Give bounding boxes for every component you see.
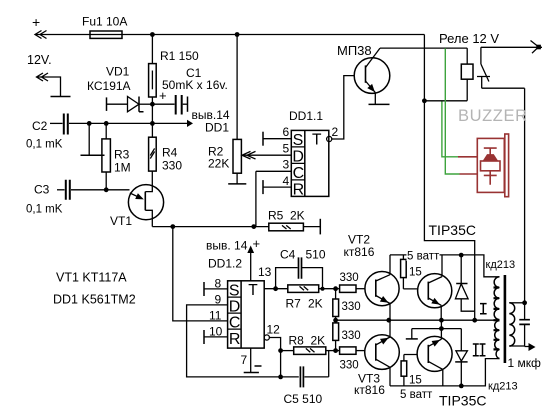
svg-text:S: S xyxy=(229,282,240,299)
svg-text:DD1: DD1 xyxy=(205,121,229,135)
svg-text:МП38: МП38 xyxy=(337,43,372,58)
pin 10 stub xyxy=(203,330,205,344)
svg-text:КС191А: КС191А xyxy=(87,79,131,93)
capacitor C3 xyxy=(57,189,65,191)
svg-text:VT1: VT1 xyxy=(110,214,132,228)
pin 3 wire (clock from VT1) xyxy=(256,171,291,226)
resistor 15 bottom (5 watt) xyxy=(404,355,418,361)
transformer core xyxy=(504,275,507,363)
resistor R5 2K xyxy=(269,223,304,231)
svg-text:10: 10 xyxy=(209,325,223,339)
resistor R3 1M xyxy=(105,123,107,189)
svg-text:DD1 K561TM2: DD1 K561TM2 xyxy=(53,293,136,307)
junction relay coil bottom xyxy=(422,98,427,103)
node B center xyxy=(333,318,338,323)
svg-text:C5 510: C5 510 xyxy=(284,392,323,406)
resistor chain node A xyxy=(333,286,338,291)
svg-text:22K: 22K xyxy=(208,157,229,171)
svg-text:1 мкф: 1 мкф xyxy=(508,356,542,370)
svg-text:C4: C4 xyxy=(280,248,296,262)
svg-text:TIP35C: TIP35C xyxy=(429,222,476,238)
transformer primary II winding xyxy=(495,321,500,359)
svg-text:C: C xyxy=(293,165,305,182)
svg-text:2: 2 xyxy=(332,125,339,139)
junction R2 top xyxy=(235,32,240,37)
wire bottom rail xyxy=(390,359,500,386)
svg-text:15: 15 xyxy=(409,267,422,279)
svg-text:+: + xyxy=(253,236,261,251)
svg-text:2K: 2K xyxy=(290,209,305,223)
svg-text:T: T xyxy=(248,282,258,299)
svg-text:R5: R5 xyxy=(268,209,284,223)
wire DD1.2 pin14 supply arrow xyxy=(250,250,252,281)
svg-text:выв. 14: выв. 14 xyxy=(206,239,248,253)
wire MP38 collector to relay coil xyxy=(380,47,467,49)
resistor R7 2K xyxy=(288,285,319,293)
wire 12V to ground xyxy=(46,77,61,97)
wire pin2 to MP38 base xyxy=(332,76,355,139)
svg-text:TIP35C: TIP35C xyxy=(439,393,486,409)
ground (12V return T-bar) xyxy=(51,96,71,98)
relay coil (Rele 12V) xyxy=(461,64,473,79)
junction R3/C3/VT1 xyxy=(104,187,109,192)
resistor R8 2K xyxy=(281,350,294,352)
svg-text:5: 5 xyxy=(283,142,290,156)
wire vyv14 arrow (to DD1 pin14) xyxy=(152,122,187,124)
junction rail to DD1.1 pin3 xyxy=(251,224,256,229)
svg-text:R8: R8 xyxy=(289,334,305,348)
resistor R1 xyxy=(151,35,153,105)
svg-text:C2: C2 xyxy=(32,119,48,133)
svg-text:D: D xyxy=(292,149,304,166)
wire green 1 (coil top to buzzer lower terminal) xyxy=(445,48,459,174)
pin 4 stub xyxy=(262,180,264,194)
resistor 330 vertical 2 xyxy=(335,320,337,323)
svg-text:R4: R4 xyxy=(162,146,178,160)
pin 9 wire (D loop) xyxy=(187,305,281,377)
resistor 330 vertical 1 xyxy=(335,289,337,299)
svg-text:Fu1 10A: Fu1 10A xyxy=(82,15,127,29)
svg-text:VD1: VD1 xyxy=(106,65,130,79)
node C xyxy=(333,348,338,353)
svg-text:50mK x 16v.: 50mK x 16v. xyxy=(162,78,228,92)
resistor 330 horizontal top (VT2 base) xyxy=(336,288,340,290)
pin 5 wire (from R2 wiper) xyxy=(243,154,291,156)
svg-text:+: + xyxy=(32,14,40,30)
transformer primary I winding xyxy=(494,277,499,320)
svg-text:кд213: кд213 xyxy=(488,381,518,393)
svg-text:Реле 12 V: Реле 12 V xyxy=(439,31,499,46)
svg-text:13: 13 xyxy=(258,265,272,279)
diode kd213 bottom xyxy=(460,329,462,351)
resistor 330 horizontal bottom (VT3 base) xyxy=(336,350,340,352)
svg-text:2K: 2K xyxy=(308,297,323,311)
wire secondary bottom output arrow xyxy=(509,345,530,348)
transistor MP38 xyxy=(354,58,390,94)
wire top rail (collectors) xyxy=(390,255,500,277)
svg-text:12: 12 xyxy=(267,323,281,337)
wire center rail xyxy=(336,319,495,321)
wire secondary top xyxy=(509,302,524,304)
wire green 2 (+12V node to buzzer upper terminal) xyxy=(442,102,458,157)
svg-text:VT1 KT117A: VT1 KT117A xyxy=(56,271,127,285)
connector arrow input + xyxy=(35,31,47,39)
terminal stub mid (T-bar at TIP bottom emitter) xyxy=(412,329,462,339)
svg-text:5 ватт: 5 ватт xyxy=(400,389,433,401)
ground under C2 xyxy=(88,123,90,155)
svg-text:5 ватт: 5 ватт xyxy=(407,251,440,263)
svg-text:0,1 mK: 0,1 mK xyxy=(26,139,63,151)
svg-text:BUZZER: BUZZER xyxy=(458,107,528,125)
svg-text:11: 11 xyxy=(209,309,222,323)
IC DD1.1 (K561TM2 flip-flop) xyxy=(291,130,329,196)
svg-text:330: 330 xyxy=(342,301,361,313)
svg-text:2K: 2K xyxy=(311,334,326,348)
pin 2 output bubble xyxy=(327,136,332,141)
wire pin12 down xyxy=(269,338,280,377)
wire VT1 b1 rail xyxy=(152,226,268,228)
svg-text:330: 330 xyxy=(340,360,359,372)
junction R3 top xyxy=(104,121,109,126)
capacitor 1 mkf xyxy=(524,303,526,320)
resistor 15 top (5 watt) xyxy=(402,255,404,260)
svg-text:кт816: кт816 xyxy=(354,383,385,397)
transformer secondary winding xyxy=(509,303,514,346)
pin 6 stub xyxy=(262,132,264,146)
diode kd213 top xyxy=(460,255,462,283)
svg-text:S: S xyxy=(293,132,304,149)
svg-text:R3: R3 xyxy=(114,148,130,162)
junction VD1/R1/C1 xyxy=(150,102,155,107)
svg-text:T: T xyxy=(312,131,322,148)
svg-text:R7: R7 xyxy=(286,297,302,311)
capacitor C1 50mK x 16v xyxy=(152,103,174,105)
svg-text:330: 330 xyxy=(342,330,361,342)
transistor TIP35C top xyxy=(418,274,452,308)
svg-text:R1 150: R1 150 xyxy=(160,49,199,63)
resistor R4 330 xyxy=(149,137,157,171)
pin 12 output bubble xyxy=(264,335,269,340)
pin 7 stub (minus supply) xyxy=(250,348,252,372)
wire +12V battery rail down xyxy=(424,35,474,321)
junction supply/C2 rail xyxy=(150,121,155,126)
potentiometer R2 22K xyxy=(236,35,238,184)
svg-text:кд213: кд213 xyxy=(486,259,516,271)
svg-text:9: 9 xyxy=(215,293,222,307)
transistor VT3 kt816 xyxy=(365,335,400,370)
wire supply node down xyxy=(151,104,153,137)
svg-text:4: 4 xyxy=(283,174,290,188)
svg-text:DD1.1: DD1.1 xyxy=(289,109,323,123)
svg-text:6: 6 xyxy=(283,125,290,139)
buzzer (piezo with crystal) xyxy=(458,134,509,197)
IC DD1.2 (K561TM2 flip-flop) xyxy=(228,281,265,348)
svg-text:1M: 1M xyxy=(114,161,131,175)
svg-text:8: 8 xyxy=(215,277,222,291)
connector arrow 12V xyxy=(37,73,49,81)
junction C2/gnd xyxy=(87,121,92,126)
transistor VT1 (KT117A unijunction) xyxy=(128,185,163,220)
svg-text:3: 3 xyxy=(283,158,290,172)
svg-text:кт816: кт816 xyxy=(344,245,375,259)
relay contact switch xyxy=(481,47,489,81)
transformer center tap xyxy=(494,319,500,321)
svg-text:C3: C3 xyxy=(34,183,50,197)
svg-text:R: R xyxy=(229,331,241,348)
capacitor C5 510 xyxy=(281,351,329,377)
pin 11 wire (clock) xyxy=(173,227,228,321)
wire top rail xyxy=(40,34,424,36)
svg-text:15: 15 xyxy=(409,375,422,387)
fuse Fu1 xyxy=(90,31,122,38)
svg-text:510: 510 xyxy=(306,248,326,262)
capacitor C2 xyxy=(50,122,63,124)
zener diode VD1 KC191A xyxy=(106,97,108,111)
svg-text:D: D xyxy=(229,299,241,316)
svg-text:C: C xyxy=(229,315,241,332)
svg-text:7: 7 xyxy=(241,353,248,367)
pin 8 stub xyxy=(203,282,205,296)
svg-text:330: 330 xyxy=(340,272,359,284)
svg-text:330: 330 xyxy=(162,159,182,173)
capacitor C4 510 xyxy=(276,268,323,289)
junction R1 top xyxy=(150,32,155,37)
svg-text:0,1 mK: 0,1 mK xyxy=(26,204,63,216)
svg-text:DD1.2: DD1.2 xyxy=(208,257,242,271)
junction rail to DD1.2 pin11 xyxy=(170,224,175,229)
svg-text:12V.: 12V. xyxy=(27,53,52,67)
wire contact output arrow xyxy=(481,46,542,48)
pin 13 output wire xyxy=(264,288,288,290)
svg-text:R: R xyxy=(293,182,305,199)
transistor VT2 kt816 xyxy=(365,272,399,306)
transistor TIP35C bottom xyxy=(417,336,452,371)
